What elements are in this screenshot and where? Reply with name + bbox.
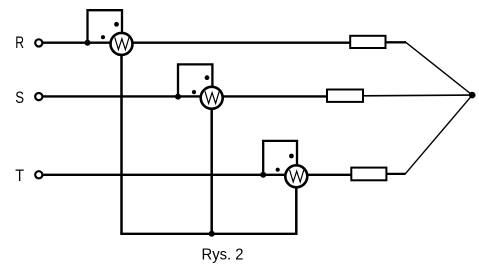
resistor load T bbox=[351, 168, 386, 181]
wattmeter W1 bbox=[111, 33, 133, 55]
svg-text:R: R bbox=[15, 34, 24, 52]
wire T after load bbox=[387, 173, 406, 175]
wire S to star bbox=[363, 94, 472, 97]
wire R phase bbox=[43, 42, 351, 44]
polarity dot W3 top bbox=[289, 154, 294, 159]
junction on bus bbox=[209, 231, 215, 237]
polarity dot W3 left bbox=[276, 168, 280, 172]
wire W1 current-coil loop bbox=[88, 10, 123, 43]
junction on S bbox=[175, 94, 181, 100]
resistor load R bbox=[350, 36, 385, 48]
junction on R bbox=[85, 40, 91, 46]
polarity dot W1 left bbox=[101, 35, 105, 39]
terminal R bbox=[35, 39, 42, 46]
wattmeter W2 bbox=[201, 87, 223, 109]
wire T phase bbox=[43, 174, 353, 176]
resistor load S bbox=[327, 90, 363, 102]
wire W3 current-coil loop bbox=[263, 141, 297, 175]
star node bbox=[469, 92, 476, 99]
polarity dot W2 left bbox=[192, 90, 196, 94]
wire S phase bbox=[43, 95, 328, 97]
svg-text:S: S bbox=[15, 89, 24, 107]
wire R diagonal to star bbox=[406, 42, 473, 95]
svg-text:T: T bbox=[15, 167, 24, 185]
wire T diagonal to star bbox=[405, 95, 472, 174]
terminal T bbox=[35, 171, 42, 178]
wire bottom bus bbox=[120, 233, 297, 235]
junction on T bbox=[260, 172, 266, 178]
terminal S bbox=[35, 93, 42, 100]
wire W3 voltage-coil drop bbox=[295, 176, 298, 234]
wire W1 voltage-coil drop bbox=[120, 44, 123, 234]
svg-text:Rys. 2: Rys. 2 bbox=[202, 247, 244, 264]
polarity dot W1 top bbox=[114, 22, 119, 27]
wire R after load bbox=[386, 41, 407, 43]
wire W2 current-coil loop bbox=[178, 64, 212, 96]
wattmeter W3 bbox=[285, 165, 307, 187]
wire W2 voltage-coil drop bbox=[210, 98, 213, 234]
polarity dot W2 top bbox=[205, 75, 210, 80]
